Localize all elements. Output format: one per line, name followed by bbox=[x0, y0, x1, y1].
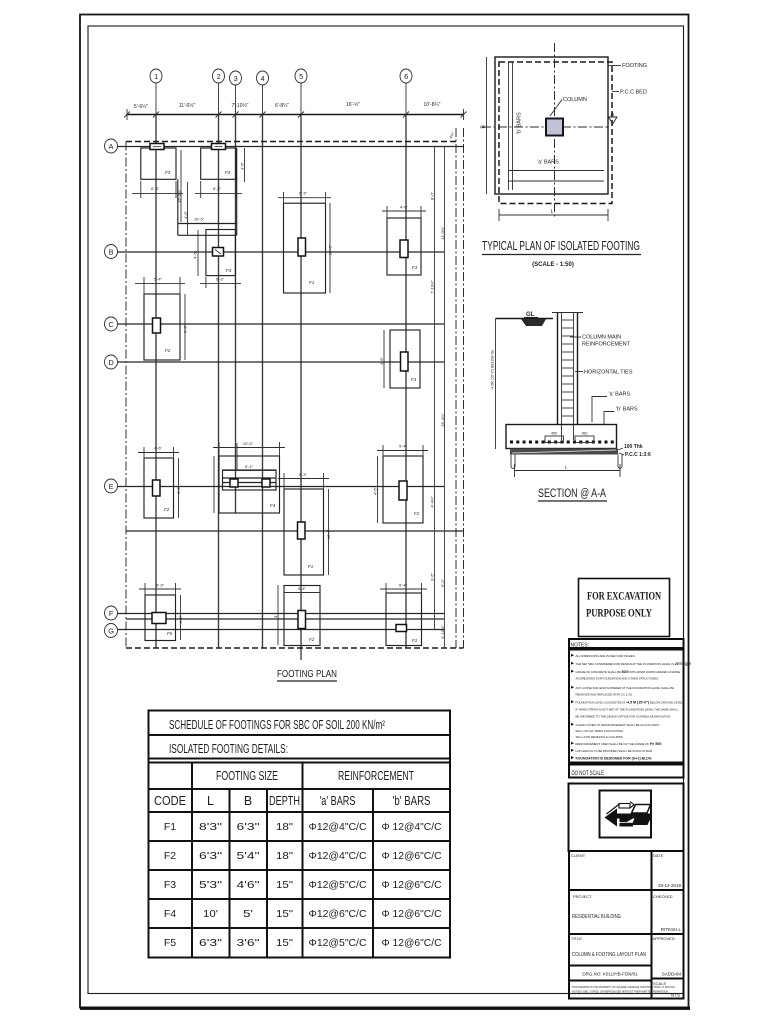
svg-text:6'-8¼": 6'-8¼" bbox=[275, 103, 289, 109]
svg-text:FOOTING PLAN: FOOTING PLAN bbox=[277, 668, 337, 680]
svg-text:6'-3": 6'-3" bbox=[216, 277, 225, 282]
svg-text:18": 18" bbox=[276, 821, 293, 833]
svg-text:1: 1 bbox=[154, 72, 158, 81]
svg-text:16'-5": 16'-5" bbox=[328, 244, 333, 255]
svg-text:LAP LENGTH TO BE PROVIDED SHAL: LAP LENGTH TO BE PROVIDED SHALL BE 50 DI… bbox=[576, 749, 653, 753]
svg-text:15": 15" bbox=[276, 937, 293, 949]
svg-text:COLUMN MAIN: COLUMN MAIN bbox=[582, 335, 621, 341]
svg-text:F1: F1 bbox=[164, 821, 176, 833]
svg-text:11'-0½": 11'-0½" bbox=[440, 226, 445, 240]
svg-text:F2: F2 bbox=[164, 850, 176, 862]
svg-text:DATE: DATE bbox=[653, 853, 664, 858]
svg-text:8'-0": 8'-0" bbox=[430, 191, 435, 200]
svg-text:A: A bbox=[109, 142, 114, 151]
svg-text:REINFORCEMENT USED SHALL BE OF: REINFORCEMENT USED SHALL BE OF THE GRADE… bbox=[576, 742, 663, 746]
svg-text:16'-0¼": 16'-0¼" bbox=[177, 189, 182, 203]
svg-text:F4: F4 bbox=[270, 503, 276, 508]
svg-text:16'-5": 16'-5" bbox=[194, 217, 205, 222]
svg-text:5'-4": 5'-4" bbox=[399, 444, 408, 449]
svg-text:Φ 12@6"C/C: Φ 12@6"C/C bbox=[382, 937, 442, 949]
svg-text:15": 15" bbox=[276, 879, 293, 891]
svg-text:P.C.C BED: P.C.C BED bbox=[620, 90, 647, 96]
svg-text:F2: F2 bbox=[309, 637, 315, 642]
svg-text:CODE: CODE bbox=[154, 794, 186, 808]
svg-text:3': 3' bbox=[273, 615, 278, 618]
svg-text:THE NET SBC CONSIDERED FOR DES: THE NET SBC CONSIDERED FOR DESIGN AT THE… bbox=[576, 662, 691, 666]
svg-text:F3: F3 bbox=[225, 170, 231, 175]
svg-text:F3: F3 bbox=[412, 265, 418, 270]
svg-text:4'-4½": 4'-4½" bbox=[430, 496, 435, 508]
svg-text:4'-6": 4'-6" bbox=[183, 210, 188, 219]
svg-text:-4.5M (15'-0") BELOW GL: -4.5M (15'-0") BELOW GL bbox=[491, 350, 495, 390]
svg-text:450: 450 bbox=[551, 432, 557, 436]
svg-text:F3: F3 bbox=[226, 268, 232, 273]
svg-text:'b' BARS: 'b' BARS bbox=[393, 794, 431, 808]
svg-text:4'-6": 4'-6" bbox=[193, 250, 198, 259]
svg-text:F: F bbox=[109, 609, 114, 618]
svg-text:F2: F2 bbox=[164, 507, 170, 512]
svg-text:4'-6": 4'-6" bbox=[400, 205, 409, 210]
svg-text:50mm ON ALL SIDES FOR FOOTING: 50mm ON ALL SIDES FOR FOOTING bbox=[576, 729, 625, 733]
svg-text:10'-8¼": 10'-8¼" bbox=[424, 102, 441, 108]
svg-text:B: B bbox=[244, 794, 252, 808]
svg-text:SECTION @ A-A: SECTION @ A-A bbox=[538, 488, 606, 500]
svg-text:Φ 12@4"C/C: Φ 12@4"C/C bbox=[382, 821, 442, 833]
svg-text:6'-3": 6'-3" bbox=[213, 186, 222, 191]
svg-text:HORIZONTAL TIES: HORIZONTAL TIES bbox=[584, 370, 633, 376]
svg-text:(SCALE - 1:50): (SCALE - 1:50) bbox=[532, 262, 574, 268]
svg-text:Φ 12@6"C/C: Φ 12@6"C/C bbox=[382, 879, 442, 891]
svg-text:4'6": 4'6" bbox=[237, 879, 260, 891]
svg-text:'a' BARS: 'a' BARS bbox=[537, 160, 559, 166]
svg-text:F5: F5 bbox=[164, 937, 176, 949]
svg-text:6'3": 6'3" bbox=[199, 937, 222, 949]
svg-text:'b' BARS: 'b' BARS bbox=[616, 407, 638, 413]
svg-text:5'-10½": 5'-10½" bbox=[440, 625, 445, 639]
svg-text:F5: F5 bbox=[167, 631, 173, 636]
svg-text:6'-3": 6'-3" bbox=[299, 472, 308, 477]
svg-text:E: E bbox=[109, 482, 114, 491]
svg-text:APPROVED: APPROVED bbox=[653, 936, 675, 941]
svg-text:FOUNDATION IS DESIGNED FOR (G+: FOUNDATION IS DESIGNED FOR (G+1) BLDG bbox=[576, 757, 652, 761]
svg-text:G: G bbox=[108, 627, 114, 636]
svg-text:GRADE OF CONCRETE SHALL BE M25: GRADE OF CONCRETE SHALL BE M25 WITH 20MM… bbox=[576, 670, 681, 674]
svg-text:P.C.C 1:3:6: P.C.C 1:3:6 bbox=[625, 452, 651, 458]
svg-text:AGGREGATES FOR FOUNDATION AND: AGGREGATES FOR FOUNDATION AND OTHER STRU… bbox=[576, 677, 660, 681]
svg-text:100 Thk: 100 Thk bbox=[624, 444, 643, 450]
svg-text:Φ12@6"C/C: Φ12@6"C/C bbox=[309, 908, 367, 920]
svg-text:F1: F1 bbox=[412, 638, 418, 643]
svg-text:7'-10½": 7'-10½" bbox=[430, 280, 435, 294]
svg-text:REINFORCEMENT: REINFORCEMENT bbox=[582, 342, 631, 348]
svg-text:DEPTH: DEPTH bbox=[269, 794, 300, 808]
svg-text:Φ 12@6"C/C: Φ 12@6"C/C bbox=[382, 908, 442, 920]
svg-text:REMOVED AND REPLACED WITH CC 1: REMOVED AND REPLACED WITH CC 1:3:6. bbox=[576, 693, 633, 697]
svg-text:Φ12@4"C/C: Φ12@4"C/C bbox=[309, 850, 367, 862]
svg-text:DRG.NO: K011/HB-FDN/01: DRG.NO: K011/HB-FDN/01 bbox=[582, 972, 638, 977]
svg-text:3'-6": 3'-6" bbox=[430, 572, 435, 581]
svg-text:4'-6": 4'-6" bbox=[154, 446, 163, 451]
svg-text:4'-6": 4'-6" bbox=[178, 615, 183, 624]
svg-text:3'-6": 3'-6" bbox=[240, 161, 245, 170]
svg-text:Φ 12@6"C/C: Φ 12@6"C/C bbox=[382, 850, 442, 862]
svg-text:4: 4 bbox=[261, 74, 265, 83]
svg-text:5': 5' bbox=[243, 908, 253, 920]
svg-text:3: 3 bbox=[234, 74, 238, 83]
svg-text:NTS: NTS bbox=[671, 993, 680, 998]
svg-text:FOOTING: FOOTING bbox=[622, 63, 647, 69]
svg-text:Φ12@5"C/C: Φ12@5"C/C bbox=[309, 879, 367, 891]
svg-text:5'-4": 5'-4" bbox=[154, 277, 163, 282]
svg-text:BE INFORMED TO THE DESIGN OFFI: BE INFORMED TO THE DESIGN OFFICE FOR SUI… bbox=[576, 715, 672, 719]
svg-text:C: C bbox=[108, 320, 113, 329]
svg-text:4'-6": 4'-6" bbox=[373, 486, 378, 495]
svg-text:RITESH.L: RITESH.L bbox=[661, 927, 682, 932]
svg-text:SADDAM: SADDAM bbox=[662, 972, 682, 977]
svg-text:F4: F4 bbox=[164, 908, 176, 920]
svg-text:9'-2": 9'-2" bbox=[440, 578, 445, 587]
svg-text:FOR EXCAVATION: FOR EXCAVATION bbox=[587, 589, 661, 603]
svg-text:F3: F3 bbox=[164, 879, 176, 891]
svg-text:F2: F2 bbox=[165, 348, 171, 353]
svg-text:DO NOT SCALE: DO NOT SCALE bbox=[572, 770, 605, 777]
svg-text:2: 2 bbox=[217, 72, 221, 81]
svg-text:6'3": 6'3" bbox=[237, 821, 260, 833]
svg-text:COLUMN: COLUMN bbox=[563, 97, 587, 103]
svg-text:TITLE: TITLE bbox=[571, 936, 582, 941]
svg-text:16'-5": 16'-5" bbox=[326, 528, 331, 539]
svg-text:PROJECT: PROJECT bbox=[573, 894, 592, 899]
svg-text:5'-4": 5'-4" bbox=[298, 586, 307, 591]
svg-text:Φ12@4"C/C: Φ12@4"C/C bbox=[309, 821, 367, 833]
svg-text:IF HARD STRATA IS NOT MET AT T: IF HARD STRATA IS NOT MET AT THE FOUNDAT… bbox=[576, 708, 679, 712]
svg-text:CLIENT: CLIENT bbox=[571, 853, 586, 858]
svg-text:FOOTING SIZE: FOOTING SIZE bbox=[216, 769, 278, 783]
svg-text:D: D bbox=[108, 358, 113, 367]
svg-text:5: 5 bbox=[299, 72, 303, 81]
svg-text:7'-10½": 7'-10½" bbox=[232, 102, 249, 109]
svg-text:3'6": 3'6" bbox=[237, 937, 260, 949]
svg-text:L: L bbox=[207, 794, 214, 808]
svg-text:6'-3": 6'-3" bbox=[151, 186, 160, 191]
svg-text:6'-3": 6'-3" bbox=[299, 191, 308, 196]
svg-text:F1: F1 bbox=[308, 564, 314, 569]
svg-text:6: 6 bbox=[404, 72, 408, 81]
svg-text:FOUNDATION LEVEL SUGGESTED IS: FOUNDATION LEVEL SUGGESTED IS -4.5 M (15… bbox=[576, 701, 684, 705]
svg-text:ANY LOOSE SOIL ENCOUNTERED AT: ANY LOOSE SOIL ENCOUNTERED AT THE FOUNDA… bbox=[576, 686, 675, 690]
svg-text:5'-6¼": 5'-6¼" bbox=[134, 104, 148, 110]
svg-text:5'-4": 5'-4" bbox=[399, 583, 408, 588]
svg-text:'a' BARS: 'a' BARS bbox=[609, 392, 631, 398]
svg-text:REINFORCEMENT: REINFORCEMENT bbox=[338, 769, 414, 783]
svg-text:'b' BARS: 'b' BARS bbox=[517, 112, 523, 134]
svg-text:5'4": 5'4" bbox=[237, 850, 260, 862]
svg-text:PURPOSE ONLY: PURPOSE ONLY bbox=[586, 606, 652, 620]
svg-text:10': 10' bbox=[203, 908, 218, 920]
svg-text:F3: F3 bbox=[411, 377, 417, 382]
svg-text:RESIDENTIAL BUILDING: RESIDENTIAL BUILDING bbox=[572, 914, 621, 920]
svg-text:F2: F2 bbox=[414, 511, 420, 516]
svg-text:CHECKED: CHECKED bbox=[653, 894, 673, 899]
svg-text:TYPICAL PLAN OF ISOLATED FOOTI: TYPICAL PLAN OF ISOLATED FOOTING bbox=[482, 238, 640, 253]
svg-text:ALL DIMENSIONS ARE IN FEET AND: ALL DIMENSIONS ARE IN FEET AND INCHES. bbox=[576, 654, 636, 658]
svg-text:5'3": 5'3" bbox=[199, 879, 222, 891]
svg-text:5'-3": 5'-3" bbox=[156, 583, 165, 588]
svg-text:29-12-2018: 29-12-2018 bbox=[658, 883, 682, 888]
svg-text:THIS DRAWING IS THE PROPERTY O: THIS DRAWING IS THE PROPERTY OF SQUARE-I… bbox=[572, 986, 675, 989]
svg-text:'a' BARS: 'a' BARS bbox=[320, 794, 356, 808]
svg-text:ISOLATED FOOTING DETAILS:: ISOLATED FOOTING DETAILS: bbox=[169, 742, 288, 756]
svg-text:5'-1": 5'-1" bbox=[245, 464, 254, 469]
svg-text:B: B bbox=[109, 248, 114, 257]
svg-text:6'3": 6'3" bbox=[199, 850, 222, 862]
svg-text:6'-3": 6'-3" bbox=[183, 324, 188, 333]
svg-text:F1: F1 bbox=[309, 280, 315, 285]
svg-text:11'-0½": 11'-0½" bbox=[179, 102, 196, 109]
svg-text:L: L bbox=[551, 209, 554, 215]
svg-text:15": 15" bbox=[276, 908, 293, 920]
svg-text:6'-3": 6'-3" bbox=[176, 485, 181, 494]
svg-text:18": 18" bbox=[276, 850, 293, 862]
svg-text:COLUMN & FOOTING LAYOUT PLAN: COLUMN & FOOTING LAYOUT PLAN bbox=[572, 952, 646, 958]
svg-text:Φ12@5"C/C: Φ12@5"C/C bbox=[309, 937, 367, 949]
svg-text:8'3": 8'3" bbox=[199, 821, 222, 833]
svg-text:16'-½": 16'-½" bbox=[346, 101, 360, 108]
svg-text:4'-6": 4'-6" bbox=[379, 356, 384, 365]
svg-text:40mm FOR PEDESTAL & COLUMNS: 40mm FOR PEDESTAL & COLUMNS bbox=[576, 735, 623, 739]
svg-text:NOTES:: NOTES: bbox=[571, 643, 590, 649]
svg-text:450: 450 bbox=[582, 432, 588, 436]
svg-text:NOT BE USED, COPIED, OR REPROD: NOT BE USED, COPIED, OR REPRODUCED WITHO… bbox=[572, 991, 669, 994]
svg-text:F3: F3 bbox=[165, 170, 171, 175]
svg-text:10'-5": 10'-5" bbox=[243, 441, 254, 446]
svg-text:16'-4¼": 16'-4¼" bbox=[440, 413, 445, 427]
svg-text:CLEAR COVER TO REINFORCEMENT S: CLEAR COVER TO REINFORCEMENT SHALL BE AS… bbox=[576, 723, 661, 727]
svg-text:SCHEDULE OF FOOTINGS FOR SBC O: SCHEDULE OF FOOTINGS FOR SBC OF SOIL 200… bbox=[169, 718, 385, 732]
